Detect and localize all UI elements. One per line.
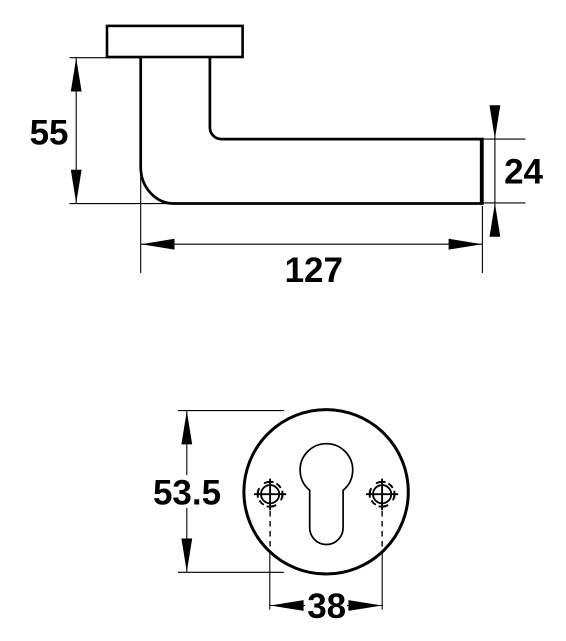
rose plate rectangle (handle top view) [107,26,243,57]
arrow up (24 bottom) [490,203,501,237]
screw hole left: tick top [267,481,274,483]
svg-text:24: 24 [504,153,543,192]
arrow down (55) [71,170,82,204]
extension line top (55 dim) [70,57,142,59]
screw hole right: tick top [379,481,386,483]
svg-text:127: 127 [285,251,343,290]
svg-text:53.5: 53.5 [153,473,221,512]
screw hole right: dashed thread circle [370,482,395,507]
arrow down (53.5) [181,539,192,573]
screw hole right: solid circle [373,485,391,503]
extension line bottom (55 dim) [70,203,301,205]
extension line left (127 dim) [140,166,142,273]
arrow up (53.5) [181,411,192,445]
dimension line 38 right segment [347,605,382,607]
screw hole right: crosshair horizontal [366,493,398,495]
dimension line 24 [494,106,496,236]
extension line top (24 dim) [484,138,526,140]
dashed centre line left screw to 38 dim [269,511,271,553]
screw hole right: crosshair vertical [381,479,383,511]
screw hole left: solid circle [261,485,279,503]
extension line bottom (53.5 dim) [178,571,284,573]
arrow down (24 top) [490,105,501,139]
screw hole left: tick left [257,491,259,498]
screw hole left: tick right [281,491,283,498]
arrow left (38) [270,600,304,611]
dimension line 53.5 upper [186,411,188,475]
escutcheon circle [244,410,408,574]
lever right end cap [481,138,484,205]
dimension line 53.5 lower [186,508,188,572]
svg-text:55: 55 [30,113,69,152]
extension line top (53.5 dim) [178,410,284,412]
extension line left (38 dim) [269,553,271,610]
svg-text:38: 38 [307,587,346,626]
lever handle outline [141,57,482,203]
extension line right (127 dim) [481,206,483,273]
screw hole left: dashed thread circle [258,482,283,507]
dimension line 55 [75,58,77,204]
dimension line 38 left segment [270,605,305,607]
screw hole right: tick left [369,491,371,498]
arrow right (38) [348,600,382,611]
screw hole right: tick bottom [379,506,386,508]
arrow right (127) [449,239,483,250]
extension line bottom (24 dim) [484,202,526,204]
arrow left (127) [141,239,175,250]
screw hole left: crosshair horizontal [254,493,286,495]
extension line right (38 dim) [381,554,383,610]
dimension line 127 [141,243,483,245]
screw hole left: crosshair vertical [269,479,271,511]
screw hole left: tick bottom [267,506,274,508]
dashed centre line right screw to 38 dim [381,511,383,554]
euro profile keyhole [300,444,353,545]
screw hole right: tick right [393,491,395,498]
arrow up (55) [71,58,82,92]
